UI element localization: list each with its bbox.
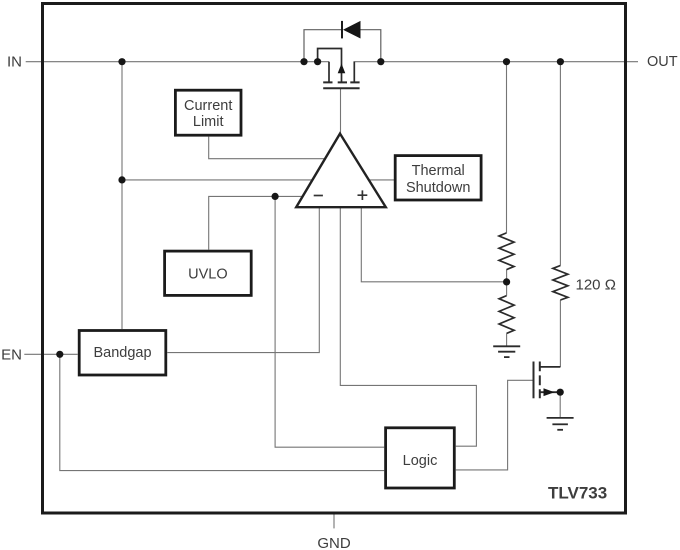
wire: amp output to PMOS gate: [340, 88, 342, 133]
node: PMOS body/source tap: [314, 58, 321, 65]
svg-text:Current: Current: [184, 98, 232, 114]
ground symbol (NMOS source): [547, 418, 574, 430]
node: PMOS drain / OUT rail: [377, 58, 384, 65]
block: UVLO: [165, 251, 252, 295]
source stub: [540, 391, 560, 393]
block: Thermal Shutdown: [395, 156, 481, 200]
pass transistor Q1 (PMOS): [318, 49, 360, 89]
pin stub GND: [333, 514, 335, 528]
svg-text:120 Ω: 120 Ω: [576, 277, 616, 294]
body loop from input rail: [318, 49, 342, 83]
discharge transistor Q2 (NMOS): [534, 362, 561, 399]
block: Bandgap: [79, 331, 166, 376]
node: IN rail / bandgap feed: [118, 58, 125, 65]
svg-text:Logic: Logic: [403, 453, 438, 469]
node: NMOS source: [557, 389, 564, 396]
gate bar: [533, 362, 535, 399]
wire: feedback node to amp non-inverting input: [361, 207, 506, 282]
Q1 body arrow: [338, 64, 346, 74]
wire: R2 to ground: [506, 333, 508, 346]
error amplifier U1: [296, 134, 386, 208]
wire: NMOS source to ground: [559, 392, 561, 418]
svg-text:Limit: Limit: [193, 114, 224, 130]
minus input marker: [314, 195, 323, 197]
svg-text:Bandgap: Bandgap: [93, 345, 151, 361]
source stub: [328, 62, 330, 83]
dashed channel: [539, 362, 541, 399]
svg-text:Thermal: Thermal: [412, 163, 465, 179]
wire: Bandgap output to amp inverting input: [167, 207, 319, 352]
node: feedback midpoint: [503, 278, 510, 285]
wire: EN lead to Bandgap: [24, 353, 77, 355]
svg-text:IN: IN: [7, 54, 22, 71]
IC boundary box: [43, 4, 626, 514]
wire: OUT rail to 120 ohm resistor: [559, 62, 561, 266]
body diode D1 of pass PMOS: [304, 21, 381, 62]
node: diode anode tap: [300, 58, 307, 65]
Q2 body arrow: [544, 388, 555, 396]
wire: amp to Thermal Shutdown: [368, 179, 395, 181]
node: OUT rail / 120 ohm: [557, 58, 564, 65]
gate electrode: [323, 87, 359, 89]
node: EN tap: [56, 351, 63, 358]
wire: top rail right (PMOS drain to OUT lead): [354, 61, 639, 63]
svg-text:GND: GND: [317, 535, 351, 550]
wire: IN rail dropdown to Bandgap top: [121, 62, 123, 329]
svg-text:TLV733: TLV733: [548, 484, 607, 503]
wire: EN dropdown to Logic input: [60, 354, 384, 470]
wire: 120 ohm resistor to NMOS drain: [559, 300, 561, 367]
svg-text:Shutdown: Shutdown: [406, 180, 471, 196]
drain stub: [540, 366, 561, 368]
resistor R2 (lower feedback): [499, 296, 514, 334]
wire: amp bottom-center to Logic: [340, 207, 476, 446]
node: OUT rail / feedback divider: [503, 58, 510, 65]
wire: UVLO node down to Logic input: [275, 196, 384, 447]
wire: R1 to R2 through feedback node: [506, 270, 508, 296]
wire: Logic output to NMOS gate: [456, 380, 534, 470]
wire: UVLO to error amp: [209, 196, 304, 249]
resistor R3 120 ohm: [553, 266, 568, 301]
wire: IN feed to error amp: [122, 179, 314, 181]
resistor R1 (upper feedback): [499, 233, 514, 270]
wire: IN lead and top rail left (IN to PMOS source): [26, 61, 329, 63]
ground symbol (feedback divider): [493, 346, 520, 357]
node: amp feed tap: [118, 176, 125, 183]
dashed channel: [323, 81, 359, 83]
node: UVLO output tap: [272, 193, 279, 200]
svg-text:OUT: OUT: [647, 54, 678, 70]
svg-text:EN: EN: [1, 346, 22, 363]
plus input marker: [358, 190, 368, 200]
wire: OUT rail to feedback resistor R1: [506, 62, 508, 233]
svg-text:UVLO: UVLO: [188, 266, 228, 282]
block: Current Limit: [175, 90, 241, 135]
block: Logic: [386, 428, 455, 488]
drain stub: [353, 62, 355, 83]
wire: Current Limit to error amp: [209, 137, 327, 159]
